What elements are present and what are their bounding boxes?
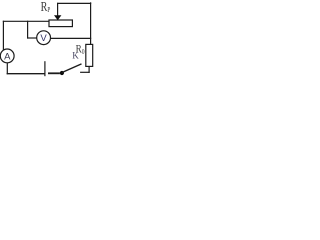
potentiometer RP wiper arrowhead bbox=[54, 15, 61, 20]
wire wiper arrow stem bbox=[57, 3, 59, 15]
switch K pivot dot bbox=[60, 71, 64, 75]
wire voltmeter left horizontal bbox=[28, 37, 37, 39]
wire left vertical bbox=[2, 21, 4, 49]
battery B1 long plate bbox=[44, 62, 46, 76]
wire resistor Rc bottom vertical bbox=[88, 66, 90, 72]
wire voltmeter right horizontal bbox=[51, 37, 91, 39]
wire ammeter bottom vertical bbox=[6, 63, 8, 74]
voltmeter V1 circle bbox=[37, 31, 51, 45]
switch K lever bbox=[62, 64, 81, 73]
wire bottom-right horizontal bbox=[81, 71, 89, 73]
svg-text:V: V bbox=[40, 33, 47, 44]
wire voltmeter branch vertical bbox=[27, 21, 29, 38]
svg-text:K: K bbox=[72, 50, 79, 60]
potentiometer RP body bbox=[49, 20, 72, 27]
battery B1 short plate / stub wire bbox=[49, 72, 59, 74]
wire wiper top horizontal bbox=[58, 2, 91, 4]
wire top-left horizontal bbox=[3, 20, 49, 22]
svg-text:A: A bbox=[4, 51, 11, 62]
ammeter A1 circle bbox=[0, 49, 14, 63]
resistor Rc body bbox=[86, 44, 93, 66]
wire right vertical bbox=[90, 3, 92, 45]
wire bottom-left horizontal bbox=[7, 73, 44, 75]
